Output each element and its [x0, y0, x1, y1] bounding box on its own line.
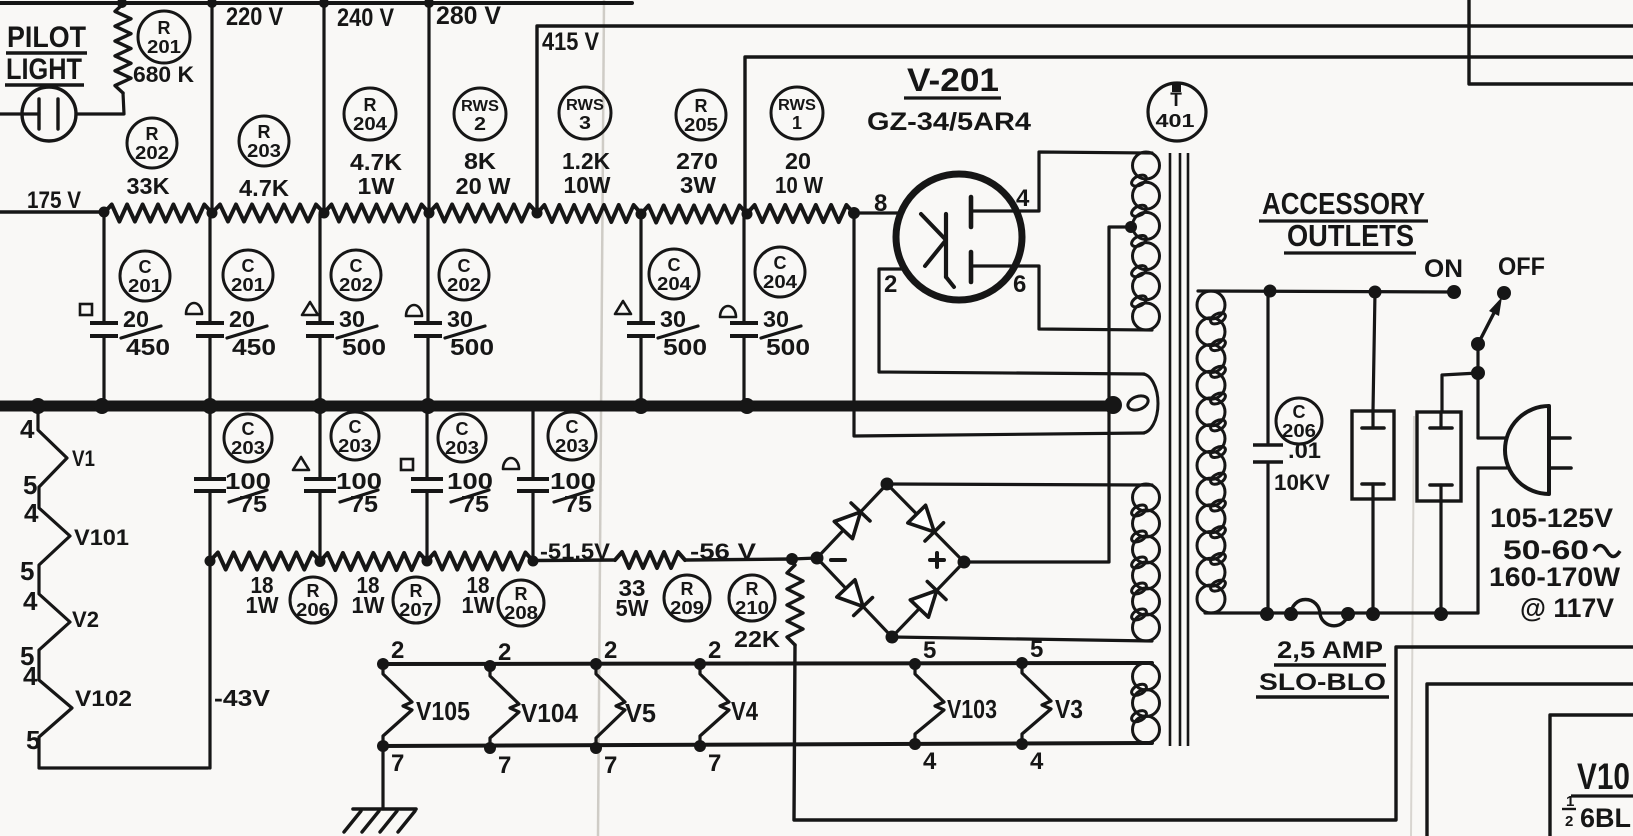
svg-text:C: C	[349, 417, 362, 437]
plug P1 line cord	[1505, 406, 1571, 494]
svg-text:GZ-34/5AR4: GZ-34/5AR4	[867, 108, 1031, 136]
label RWS3 value 1.2K 10W	[562, 148, 611, 198]
svg-text:5: 5	[20, 556, 34, 586]
svg-text:203: 203	[231, 438, 265, 458]
fuse F1 2.5A squiggle	[1291, 600, 1348, 626]
resistor R204 4.7K 1W	[324, 205, 429, 222]
heater V5	[590, 658, 625, 754]
svg-text:1W: 1W	[462, 592, 495, 618]
svg-text:C: C	[242, 256, 255, 276]
svg-text:202: 202	[135, 143, 169, 163]
transformer T401 primary winding	[1197, 291, 1227, 613]
svg-text:C: C	[242, 419, 255, 439]
capacitor C204 section marker	[720, 306, 736, 317]
wire pilot lamp to R201	[76, 93, 124, 114]
svg-text:C: C	[1293, 402, 1306, 422]
svg-text:680 K: 680 K	[133, 62, 194, 87]
capacitor C204 30/500 column x=641	[627, 214, 655, 401]
heater V3	[1016, 657, 1051, 750]
node ground bus right end dot	[1104, 396, 1122, 414]
svg-text:V3: V3	[1055, 694, 1083, 724]
wire pin 4 to HV winding top	[971, 152, 1152, 211]
svg-text:500: 500	[663, 334, 707, 360]
svg-text:4: 4	[20, 414, 35, 444]
capacitor C203 designator	[438, 414, 486, 462]
svg-text:6BL: 6BL	[1580, 803, 1631, 833]
svg-text:V2: V2	[72, 607, 99, 632]
svg-text:209: 209	[670, 598, 704, 618]
capacitor C202 designator	[331, 250, 381, 300]
diode D4 (bottom to plus)	[910, 582, 946, 618]
svg-text:@ 117V: @ 117V	[1520, 593, 1614, 623]
svg-text:C: C	[458, 256, 471, 276]
svg-text:LIGHT: LIGHT	[6, 53, 82, 86]
resistor RWS2 designator	[454, 88, 506, 140]
svg-text:20: 20	[785, 148, 811, 174]
node ground bus junction dots	[30, 398, 755, 414]
capacitor C206 designator	[1276, 398, 1322, 444]
resistor R203 designator	[239, 116, 289, 166]
svg-text:415 V: 415 V	[542, 28, 599, 56]
label C203 value 100/75	[225, 468, 271, 517]
svg-text:R: R	[515, 584, 528, 604]
svg-text:V103: V103	[947, 694, 997, 724]
svg-text:ON: ON	[1424, 255, 1463, 283]
svg-text:4: 4	[23, 661, 38, 691]
svg-text:-51.5V: -51.5V	[540, 539, 610, 564]
capacitor C201 20/450 column x=210	[196, 214, 224, 401]
svg-text:20: 20	[123, 306, 149, 332]
heater V105	[377, 658, 412, 752]
svg-text:22K: 22K	[734, 626, 780, 652]
capacitor C203 100/75 column x=533	[517, 411, 549, 560]
svg-text:10 W: 10 W	[775, 172, 823, 198]
svg-text:3W: 3W	[680, 172, 716, 198]
svg-text:-56 V: -56 V	[690, 539, 756, 564]
capacitor C202 designator	[439, 250, 489, 300]
resistor RWS3 designator	[559, 87, 611, 139]
svg-text:7: 7	[498, 752, 511, 779]
switch S1 arm with arrow	[1478, 297, 1502, 344]
capacitor C203 designator	[331, 412, 379, 460]
svg-text:280 V: 280 V	[436, 2, 501, 30]
resistor R205 270 3W	[641, 206, 747, 223]
wire pin 6 to HV winding bottom	[971, 266, 1152, 330]
diode D1 (minus to top)	[834, 503, 870, 539]
svg-text:OFF: OFF	[1498, 253, 1545, 281]
switch S1 pivot dots	[1471, 337, 1485, 380]
svg-text:203: 203	[338, 436, 372, 456]
svg-text:1: 1	[1566, 793, 1574, 810]
svg-text:75: 75	[564, 491, 592, 517]
node fuse bus dots	[1260, 607, 1448, 621]
diode bridge edge top-right	[887, 484, 964, 562]
svg-text:1W: 1W	[246, 592, 279, 618]
svg-text:4: 4	[24, 498, 39, 528]
capacitor C203 100/75 column x=320	[304, 411, 336, 560]
svg-text:105-125V: 105-125V	[1490, 503, 1613, 533]
resistor R210 designator	[729, 575, 775, 621]
wire heater bus pin-2 row	[383, 663, 1152, 664]
svg-text:C: C	[566, 417, 579, 437]
svg-text:500: 500	[450, 334, 494, 360]
svg-text:30: 30	[447, 306, 473, 332]
svg-text:ACCESSORY: ACCESSORY	[1262, 186, 1425, 221]
switch S1 OFF contact dot	[1497, 286, 1511, 300]
wire feed to outlet 1	[1373, 292, 1375, 411]
transformer T401 5V rectifier heater winding	[1126, 374, 1158, 433]
label R205 value 270 3W	[676, 148, 718, 198]
resistor R202 designator	[127, 118, 177, 168]
capacitor C201 designator	[223, 250, 273, 300]
label R206 value 18 1W	[246, 572, 279, 618]
svg-text:204: 204	[763, 272, 797, 292]
wire pin 8 lead	[854, 211, 899, 214]
wire plug lower prong to fuse bus	[1478, 468, 1509, 613]
svg-text:30: 30	[660, 306, 686, 332]
capacitor C202 30/500 column x=428	[414, 214, 442, 401]
resistor R208 designator	[498, 580, 544, 626]
tube V201 plate pin 6	[969, 252, 974, 282]
transformer T401 6.3V heater winding	[1130, 663, 1160, 743]
svg-text:20: 20	[229, 306, 255, 332]
svg-text:207: 207	[399, 600, 433, 620]
capacitor C203 designator	[224, 414, 272, 462]
svg-text:T: T	[1170, 90, 1182, 111]
svg-text:2: 2	[884, 271, 897, 298]
capacitor C203 section marker	[293, 457, 309, 470]
svg-text:V105: V105	[416, 696, 470, 726]
resistor R206 designator	[290, 577, 336, 623]
svg-text:V10: V10	[1577, 756, 1630, 797]
resistor R203 4.7K	[212, 205, 324, 222]
label C203 value 100/75	[336, 468, 382, 517]
svg-text:C: C	[774, 253, 787, 273]
diode D3 (minus to bottom)	[837, 580, 873, 616]
svg-text:160-170W: 160-170W	[1489, 562, 1621, 592]
resistor R201 designator	[138, 11, 190, 63]
svg-text:30: 30	[339, 306, 365, 332]
svg-text:240 V: 240 V	[337, 4, 394, 32]
outlet socket 2	[1417, 412, 1461, 501]
svg-text:OUTLETS: OUTLETS	[1287, 218, 1414, 253]
label C202 value 30/500	[337, 306, 386, 360]
svg-text:4: 4	[923, 748, 937, 775]
svg-text:175 V: 175 V	[27, 187, 81, 214]
wire primary bottom to fuse bus	[1205, 611, 1478, 614]
wire bias chain to heater string return	[208, 561, 211, 768]
capacitor C203 100/75 column x=210	[194, 411, 226, 560]
wire accessory feed line	[1198, 291, 1454, 292]
wire 280V column	[427, 3, 430, 213]
capacitor C202 section marker	[302, 302, 318, 315]
wire -51.5V segment	[533, 558, 615, 562]
wire outlet 1 to fuse bus	[1371, 499, 1374, 614]
diode bridge edge left-bottom	[817, 558, 892, 637]
resistor RWS1 20 10W	[747, 205, 854, 222]
wire heater string V1 V101 V2 V102 series chain	[38, 406, 208, 768]
resistor R201 680K (vertical)	[115, 4, 131, 93]
svg-text:2: 2	[474, 114, 486, 134]
capacitor C204 section marker	[615, 301, 631, 314]
wire ground bus (thick)	[0, 401, 1113, 412]
svg-text:7: 7	[604, 752, 617, 779]
capacitor C202 30/500 column x=320	[306, 214, 334, 401]
svg-text:75: 75	[350, 491, 378, 517]
wire bridge plus to ground bus	[964, 410, 1109, 562]
node top-rail junction dots	[117, 0, 434, 8]
capacitor C204 designator	[755, 247, 805, 297]
svg-text:208: 208	[504, 603, 538, 623]
resistor RWS3 1.2K 10W	[537, 205, 641, 222]
svg-text:1: 1	[792, 113, 802, 133]
label RWS2 value 8K 20W	[456, 148, 511, 199]
wire -56V node to bridge	[792, 558, 817, 559]
label C201 value 20/450	[227, 306, 276, 360]
label C203 value 100/75	[447, 468, 493, 517]
svg-text:2: 2	[1565, 813, 1573, 830]
svg-text:5W: 5W	[616, 595, 649, 621]
label V-201 title	[904, 62, 1001, 98]
svg-text:4: 4	[1030, 748, 1044, 775]
svg-text:7: 7	[391, 750, 404, 777]
capacitor C201 designator	[120, 251, 170, 301]
transformer T401 core	[1170, 153, 1188, 746]
label fuse 2.5 AMP	[1274, 637, 1386, 665]
svg-text:.01: .01	[1288, 438, 1321, 463]
svg-text:V-201: V-201	[907, 62, 999, 98]
svg-text:V1: V1	[72, 446, 95, 471]
svg-text:2,5 AMP: 2,5 AMP	[1277, 637, 1383, 664]
svg-text:10KV: 10KV	[1274, 470, 1330, 495]
svg-text:202: 202	[339, 275, 373, 295]
svg-text:V5: V5	[625, 698, 656, 728]
wire 415V line	[537, 26, 1633, 213]
svg-text:R: R	[695, 96, 708, 116]
svg-text:5: 5	[23, 470, 37, 500]
diode bridge edge bottom-right	[892, 562, 964, 637]
label fuse SLO-BLO	[1256, 669, 1389, 697]
svg-text:RWS: RWS	[778, 97, 816, 114]
capacitor C203 section marker	[503, 458, 519, 469]
label bridge plus	[930, 553, 944, 567]
svg-text:204: 204	[657, 274, 691, 294]
svg-text:7: 7	[708, 750, 721, 777]
svg-text:270: 270	[676, 148, 718, 174]
svg-text:33K: 33K	[127, 173, 170, 199]
svg-text:C: C	[668, 255, 681, 275]
svg-text:8K: 8K	[464, 148, 496, 174]
svg-text:1W: 1W	[358, 173, 395, 199]
svg-text:450: 450	[126, 334, 170, 360]
svg-text:C: C	[350, 256, 363, 276]
wire -56V segment	[685, 559, 792, 560]
transformer T401 designator	[1148, 83, 1206, 141]
svg-text:500: 500	[342, 334, 386, 360]
node bias chain junction dots	[205, 553, 799, 567]
wire outlet 2 to fuse bus	[1439, 501, 1442, 614]
svg-text:201: 201	[147, 37, 181, 57]
label C201 value 20/450	[121, 306, 170, 360]
svg-text:203: 203	[247, 141, 281, 161]
svg-text:205: 205	[684, 115, 718, 135]
outlet socket 1	[1352, 411, 1394, 499]
svg-text:R: R	[746, 579, 759, 599]
label bridge minus	[831, 558, 845, 562]
wire plug upper prong	[1478, 436, 1507, 439]
svg-text:2: 2	[708, 637, 721, 664]
capacitor C202 section marker	[406, 305, 422, 316]
svg-text:210: 210	[735, 598, 769, 618]
heater V104	[484, 660, 519, 754]
svg-text:C: C	[139, 257, 152, 277]
svg-text:V104: V104	[521, 698, 578, 728]
svg-text:SLO-BLO: SLO-BLO	[1259, 669, 1386, 696]
svg-text:6: 6	[1013, 271, 1026, 298]
wire screen-supply line	[745, 57, 1633, 213]
svg-text:203: 203	[555, 436, 589, 456]
label R207 value 18 1W	[352, 572, 385, 618]
svg-text:4: 4	[1016, 185, 1030, 212]
ground symbol	[344, 746, 416, 832]
wire output stage box rail	[1427, 684, 1633, 836]
svg-text:R: R	[158, 18, 171, 38]
label PILOT LIGHT	[5, 21, 87, 86]
svg-text:401: 401	[1156, 111, 1195, 131]
svg-text:R: R	[681, 579, 694, 599]
transformer T401 bias winding	[1130, 484, 1160, 641]
svg-text:75: 75	[461, 491, 489, 517]
label line rating 50-60~	[1503, 535, 1620, 565]
resistor RWS1 designator	[771, 87, 823, 139]
svg-text:75: 75	[239, 491, 267, 517]
resistor R209 designator	[664, 575, 710, 621]
svg-text:R: R	[258, 122, 271, 142]
diode D2 (top to plus)	[908, 505, 944, 541]
wire left edge to pilot lamp	[0, 112, 39, 115]
svg-text:5: 5	[923, 637, 936, 664]
svg-text:R: R	[307, 581, 320, 601]
svg-text:PILOT: PILOT	[7, 21, 86, 54]
svg-text:202: 202	[447, 275, 481, 295]
diode bridge edge left-top	[817, 484, 887, 558]
label C204 value 30/500	[761, 306, 810, 360]
heater V103	[909, 658, 944, 750]
pilot lamp	[22, 87, 76, 141]
tube V201 envelope	[896, 174, 1022, 300]
svg-text:1.2K: 1.2K	[562, 148, 610, 174]
label ACCESSORY	[1259, 186, 1428, 221]
resistor R207 designator	[393, 577, 439, 623]
node HV center tap	[1125, 221, 1137, 233]
resistor R210 22K (vertical)	[787, 565, 803, 645]
svg-text:3: 3	[579, 113, 591, 133]
svg-text:5: 5	[1030, 636, 1043, 663]
transformer T401 HV secondary winding	[1130, 152, 1160, 330]
wire R210 to output-stage bias feed	[794, 645, 1633, 820]
wire 220V column	[210, 3, 213, 213]
resistor R204 designator	[344, 88, 396, 140]
resistor R208 18 1W	[427, 553, 533, 570]
wire HV center tap to ground bus	[1109, 227, 1131, 402]
svg-text:RWS: RWS	[566, 97, 604, 114]
wire pin 8 B+ output to 5V winding	[854, 213, 1144, 436]
svg-text:2: 2	[391, 637, 404, 664]
capacitor C203 designator	[548, 412, 596, 460]
wire switch to outlet 2	[1442, 373, 1478, 411]
svg-text:-43V: -43V	[214, 685, 271, 711]
capacitor C203 100/75 column x=427	[411, 411, 443, 560]
label OUTLETS	[1284, 218, 1416, 253]
label V10 tube	[1562, 756, 1633, 833]
svg-text:R: R	[146, 124, 159, 144]
svg-text:4: 4	[23, 586, 38, 616]
label R208 value 18 1W	[462, 572, 495, 618]
node accessory feed dots	[1264, 285, 1382, 299]
capacitor C201 section marker	[186, 303, 202, 314]
wire bridge AC top to T401 bias winding	[887, 484, 1152, 485]
wire bridge AC bottom to T401 bias winding	[892, 637, 1152, 641]
resistor R202 33K	[104, 205, 212, 222]
wire top B+ feed rail	[0, 1, 632, 5]
svg-text:2: 2	[604, 637, 617, 664]
svg-text:10W: 10W	[564, 172, 611, 198]
label R204 value 4.7K 1W	[350, 149, 402, 199]
svg-text:V101: V101	[74, 525, 129, 550]
svg-text:R: R	[410, 581, 423, 601]
svg-text:V102: V102	[75, 686, 132, 711]
svg-text:4.7K: 4.7K	[350, 149, 402, 175]
tube V201 filament-cathode	[921, 214, 954, 287]
svg-text:2: 2	[498, 639, 511, 666]
node bridge corner dots	[811, 478, 971, 644]
svg-text:30: 30	[763, 306, 789, 332]
resistor R205 designator	[676, 90, 726, 140]
svg-text:500: 500	[766, 334, 810, 360]
node pin 8 junction dot	[848, 207, 860, 219]
svg-text:R: R	[364, 95, 377, 115]
svg-text:220 V: 220 V	[226, 3, 283, 31]
wire inner box V10 frame	[1550, 715, 1633, 836]
wire 175V node to R202	[0, 210, 104, 213]
svg-text:203: 203	[445, 438, 479, 458]
node B+ chain junction dots	[99, 207, 753, 220]
svg-text:20 W: 20 W	[456, 173, 511, 199]
svg-text:RWS: RWS	[461, 98, 499, 115]
heater V4	[694, 658, 729, 752]
svg-text:450: 450	[232, 334, 276, 360]
wire heater bus pin-7 row	[383, 743, 1152, 746]
capacitor C204 designator	[649, 249, 699, 299]
wire switch to plug upper	[1476, 344, 1479, 438]
capacitor C201 20/450 column x=104	[90, 214, 118, 401]
wire pin 2 to 5V winding	[879, 269, 1144, 374]
wire top-right drop to lower rail	[1469, 0, 1633, 84]
svg-text:50-60: 50-60	[1503, 535, 1589, 565]
label C202 value 30/500	[445, 306, 494, 360]
resistor RWS2 8K 20W	[429, 205, 537, 222]
tube V201 plate pin 4	[969, 197, 974, 227]
svg-text:4.7K: 4.7K	[239, 175, 289, 201]
label C204 value 30/500	[658, 306, 707, 360]
switch S1 ON contact dot	[1447, 285, 1461, 299]
svg-text:V4: V4	[731, 696, 758, 726]
svg-text:1W: 1W	[352, 592, 385, 618]
capacitor C206 .01 10KV	[1253, 291, 1283, 614]
capacitor C203 section marker	[401, 459, 413, 470]
label RWS1 value 20 10W	[775, 148, 823, 198]
label R209 value 33 5W	[616, 575, 649, 621]
